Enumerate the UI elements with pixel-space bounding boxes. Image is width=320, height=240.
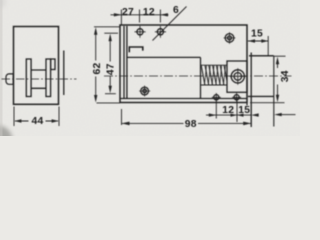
svg-text:27: 27 — [122, 7, 134, 18]
svg-text:98: 98 — [185, 119, 197, 130]
svg-text:44: 44 — [31, 116, 43, 127]
spring coils — [201, 65, 227, 85]
top dim tick t3 — [159, 10, 161, 23]
plate hole inner circle — [143, 89, 147, 93]
dim 98 right arrow — [243, 122, 251, 126]
paper background — [0, 0, 300, 136]
top hole 2 cross — [155, 26, 166, 38]
dim 98 line — [122, 122, 252, 124]
main centerline — [104, 75, 292, 77]
hole 3 inner circle — [228, 36, 232, 40]
dim 62 arrows — [94, 27, 97, 102]
spring top line — [201, 64, 227, 66]
left view centerline — [2, 78, 77, 80]
dim 12 outside left arrow — [209, 113, 217, 116]
svg-text:12: 12 — [222, 105, 234, 116]
dim 98 left ext — [121, 109, 123, 125]
top dim line — [111, 14, 169, 16]
dim 98 left arrow — [122, 122, 130, 126]
plate hole cross — [139, 86, 150, 97]
dim 47 top ext — [104, 32, 118, 34]
middle tick arrows — [231, 114, 244, 117]
left knob (plunger pin head) — [6, 74, 13, 84]
block washer inner circle — [234, 73, 242, 81]
leader line for 6 — [153, 7, 187, 41]
spool left flange — [26, 59, 31, 97]
dim 62 bottom ext — [97, 102, 121, 104]
top hole 1 circle — [137, 29, 143, 35]
dim 12/15 ext A — [215, 100, 217, 119]
bottom hole A cross — [212, 93, 221, 102]
bolt block — [227, 61, 247, 92]
dim 44 line — [15, 120, 58, 122]
left view outer box — [14, 27, 59, 105]
svg-text:34: 34 — [280, 70, 291, 82]
bottom hole B cross — [232, 93, 241, 102]
bottom hole B circle — [234, 95, 239, 100]
dim 15t line — [248, 40, 268, 42]
dim 47 bottom ext — [105, 93, 116, 95]
dim 62 top ext — [94, 26, 120, 28]
armature plate top edge — [127, 56, 201, 58]
top hole 2 circle — [157, 29, 163, 35]
spring bottom line — [201, 84, 227, 86]
dim 34 line — [277, 60, 279, 100]
case inner bottom line — [120, 98, 247, 100]
dim 12/15 ext B — [236, 100, 238, 123]
dim 44 arrows — [14, 119, 58, 122]
dim 47 line — [109, 37, 111, 91]
spool web — [31, 70, 46, 88]
svg-text:15: 15 — [251, 29, 263, 40]
dim 15 outside right arrow — [251, 113, 259, 116]
dim 47 arrows — [109, 34, 112, 94]
dim 34 arrows — [276, 57, 279, 103]
dim 34 bottom ext — [250, 102, 285, 104]
top dim tick t2 — [139, 10, 141, 23]
svg-text:6: 6 — [173, 5, 179, 16]
far right arrow — [274, 113, 282, 116]
spool top-right tab — [51, 59, 55, 70]
bolt protrusion — [248, 56, 274, 97]
plate hole outer circle — [141, 87, 149, 95]
dim 15t arrows — [248, 39, 268, 42]
dim 12/15 line — [206, 114, 251, 116]
corner scan shadow top-left — [0, 0, 6, 8]
top dim tick t1 — [120, 10, 122, 25]
case inner wall line B / plate left edge — [126, 26, 128, 99]
armature plate right edge — [200, 57, 202, 98]
L-hook bracket — [129, 47, 143, 52]
svg-text:15: 15 — [238, 105, 250, 116]
bottom hole A circle — [214, 95, 219, 100]
corner scan shadow bottom-left — [0, 126, 13, 155]
svg-text:47: 47 — [106, 63, 117, 75]
far right arrow tail — [280, 114, 296, 116]
dim 44 extension lines — [14, 107, 59, 127]
case inner wall line A — [123, 26, 125, 99]
left edge scan strip — [0, 0, 3, 136]
block washer outer circle — [231, 70, 244, 83]
case outline — [120, 25, 247, 103]
hole 3 cross — [224, 32, 236, 44]
svg-text:62: 62 — [92, 62, 103, 74]
top hole 1 cross — [135, 26, 146, 38]
short vertical line right of left view — [63, 51, 65, 96]
hole 3 outer circle — [225, 34, 234, 43]
dim 34 top ext — [274, 55, 286, 57]
dim 62 line — [95, 30, 97, 100]
spring coils reverse — [205, 65, 226, 85]
block washer cross — [230, 68, 246, 85]
spool right bar — [46, 59, 51, 97]
top dim left arrow — [114, 13, 122, 16]
svg-text:12: 12 — [143, 7, 155, 18]
bolt right edge + extension down — [273, 56, 275, 127]
dim 15t right ext — [267, 36, 269, 56]
faceplate edge line — [250, 53, 252, 128]
top dim right arrow — [160, 13, 168, 16]
case right edge extension below — [246, 103, 248, 106]
